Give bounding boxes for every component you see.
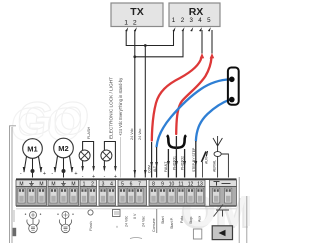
red wire RX5 to terminal 11 bbox=[176, 58, 211, 135]
svg-text:1: 1 bbox=[172, 17, 176, 24]
RX photocell box bbox=[169, 3, 220, 27]
svg-text:ALT: ALT bbox=[153, 166, 157, 172]
wire TX2 to RX2 bus bbox=[135, 30, 183, 57]
svg-text:Stop: Stop bbox=[189, 217, 193, 224]
leader line label t5 bbox=[120, 137, 122, 178]
electric lock lamp loop bbox=[101, 142, 117, 181]
RX pin arrows bbox=[173, 27, 211, 31]
svg-text:Comune: Comune bbox=[152, 218, 156, 232]
svg-text:0 V: 0 V bbox=[133, 213, 137, 219]
stub terminal 10 bbox=[167, 149, 170, 178]
red arrow at RX4 bbox=[200, 53, 205, 59]
svg-text:+: + bbox=[74, 171, 77, 177]
svg-text:M1: M1 bbox=[27, 145, 37, 154]
lock bottom icon bbox=[113, 210, 121, 229]
motor M2 bbox=[51, 138, 77, 177]
TX photocell box bbox=[111, 3, 163, 27]
bottom rotated labels bbox=[125, 213, 202, 232]
strip bottom line bbox=[16, 205, 237, 207]
stub terminal 8 bbox=[150, 142, 153, 178]
motor1 bottom icon bbox=[25, 212, 41, 233]
bottom aerial mark bbox=[214, 205, 230, 217]
jumper wire terminals 10-11 bbox=[167, 135, 186, 148]
wire bus1 drop to terminal 7 bbox=[144, 46, 146, 178]
red arrow at RX5 bbox=[210, 53, 215, 59]
wire TX1 to RX1 bus bbox=[126, 30, 173, 46]
blue wire button bottom to terminal 12 bbox=[196, 100, 230, 141]
block 5-7 bbox=[118, 180, 147, 206]
svg-text:Start: Start bbox=[161, 216, 165, 224]
flash bottom icon bbox=[88, 210, 93, 231]
svg-text:PHOTO1: PHOTO1 bbox=[172, 156, 176, 170]
vertical labels above terminals bbox=[87, 77, 142, 140]
stub terminal 11a bbox=[175, 136, 178, 178]
blue wire terminal 9 to button top bbox=[157, 79, 230, 146]
svg-text:ELECTRONIC LOCK / LIGHT: ELECTRONIC LOCK / LIGHT bbox=[109, 77, 114, 139]
svg-text:2: 2 bbox=[181, 17, 185, 24]
svg-text:Foto: Foto bbox=[180, 216, 184, 223]
terminal strip bbox=[16, 179, 237, 209]
board left edge bbox=[10, 126, 17, 243]
svg-text:24 Vac: 24 Vac bbox=[142, 216, 146, 227]
wire RX5 stub bbox=[211, 30, 213, 54]
svg-text:FLASH: FLASH bbox=[87, 127, 91, 139]
strip top edge line bbox=[16, 178, 237, 180]
svg-text:STEP-BY STEP: STEP-BY STEP bbox=[192, 147, 196, 172]
wire RX4 stub bbox=[201, 30, 203, 54]
svg-text:Flash: Flash bbox=[88, 221, 93, 231]
svg-text:2: 2 bbox=[133, 19, 137, 26]
wire bus2 drop to terminal 6 bbox=[134, 57, 136, 178]
block aerial bbox=[210, 180, 237, 206]
watermark letters bbox=[8, 92, 253, 238]
block 3-4 bbox=[99, 180, 116, 206]
svg-text:3: 3 bbox=[189, 17, 193, 24]
TX pin arrows bbox=[125, 27, 137, 31]
red wire RX4 to terminal 8 bbox=[152, 58, 202, 141]
motor M1 bbox=[20, 139, 46, 178]
node on bus1 bbox=[144, 44, 147, 47]
push button bbox=[228, 68, 239, 105]
svg-text:4: 4 bbox=[198, 17, 202, 24]
svg-text:1: 1 bbox=[124, 19, 128, 26]
svg-text:24 Vdc: 24 Vdc bbox=[125, 216, 129, 227]
svg-text:Aux: Aux bbox=[198, 216, 202, 222]
bottom-right empty square bbox=[193, 229, 201, 239]
node on bus2 bbox=[133, 55, 136, 58]
block M2 bbox=[48, 180, 79, 206]
block 8-13 bbox=[149, 180, 205, 206]
stub terminal 9 bbox=[155, 147, 158, 178]
svg-text:TX: TX bbox=[130, 6, 143, 18]
left edge small marks bbox=[13, 210, 17, 236]
switch contact AUX bbox=[202, 151, 208, 178]
arrows on power drops bbox=[144, 170, 147, 176]
block 1-2 bbox=[80, 180, 97, 206]
svg-text:-: - bbox=[51, 171, 53, 177]
svg-text:+24 Vdc EveryThing in stand-by: +24 Vdc EveryThing in stand-by bbox=[118, 77, 123, 136]
svg-text:5: 5 bbox=[207, 17, 211, 24]
svg-text:M2: M2 bbox=[58, 144, 68, 153]
board right edge bbox=[239, 177, 247, 243]
svg-text:COM: COM bbox=[148, 165, 152, 173]
svg-text:FAULT: FAULT bbox=[164, 162, 168, 172]
svg-text:Start P.: Start P. bbox=[170, 217, 174, 229]
svg-text:GO: GO bbox=[8, 98, 85, 150]
svg-text:24 Vdc: 24 Vdc bbox=[130, 128, 134, 140]
terminal stub wires with arrows bbox=[134, 136, 198, 178]
svg-text:PHOTO2: PHOTO2 bbox=[181, 156, 185, 170]
block M1 bbox=[16, 180, 47, 206]
stub terminal 12 bbox=[194, 141, 197, 178]
svg-text:-: - bbox=[20, 171, 22, 177]
svg-text:24 Vac: 24 Vac bbox=[138, 128, 142, 140]
svg-text:AUX: AUX bbox=[204, 156, 208, 164]
svg-text:AERIAL: AERIAL bbox=[212, 160, 216, 172]
svg-text:+: + bbox=[43, 171, 46, 177]
aerial symbol bbox=[213, 136, 228, 178]
bottom-right module bbox=[212, 226, 232, 240]
flash lamp loop bbox=[79, 142, 95, 181]
stub terminal 11b bbox=[183, 149, 186, 178]
motor2 bottom icon bbox=[57, 212, 73, 233]
